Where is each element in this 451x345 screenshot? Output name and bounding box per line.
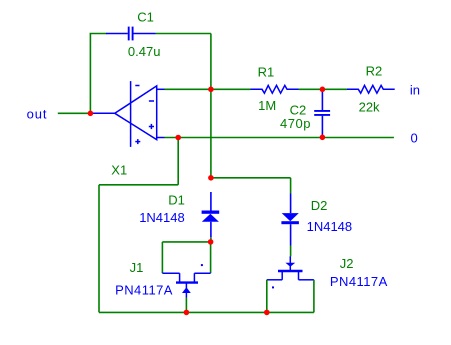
svg-text:1N4148: 1N4148 [139,210,185,225]
wire feedback left vertical [89,34,91,114]
wire feedback top-left segment [90,33,107,35]
wire J1 loop right [210,242,212,273]
wire out horizontal [58,112,91,114]
wire J1 loop top [162,241,210,243]
wire J2 left leg [266,280,268,313]
resistor R2 [347,85,395,93]
wire J2 right leg [313,280,315,313]
svg-text:out: out [27,107,48,122]
svg-text:22k: 22k [359,100,380,115]
junction node C2 top [320,87,326,93]
wire X1 loop horizontal [99,184,178,186]
svg-text:470p: 470p [280,116,311,131]
svg-text:0: 0 [411,130,418,145]
svg-text:PN4117A: PN4117A [330,274,388,289]
svg-text:1N4148: 1N4148 [307,219,353,234]
svg-text:in: in [410,83,420,98]
junction node out [88,111,94,117]
junction node C2 bottom [320,135,326,141]
wire left vertical to rail [98,185,100,313]
wire bottom rail [99,311,314,313]
junction node E rail [184,310,190,316]
junction node D [208,239,214,245]
wire R1 to R2 [299,88,348,90]
transistor J2 [267,256,314,288]
svg-text:J2: J2 [340,256,354,271]
svg-text:PN4117A: PN4117A [115,283,173,298]
op-amp X1 [90,81,164,147]
diode D2 [281,194,299,257]
wire J1 gate to rail [185,297,187,312]
svg-text:1M: 1M [258,98,276,113]
svg-text:X1: X1 [111,163,127,178]
svg-text:D1: D1 [168,193,185,208]
junction node B inv input [208,87,214,93]
junction node C [208,175,214,181]
svg-text:D2: D2 [311,198,328,213]
transistor J1 [162,264,210,297]
diode D1 [202,192,220,242]
svg-text:R2: R2 [366,64,383,79]
capacitor C1 [106,27,156,41]
junction node A noninv [175,135,181,141]
wire feedback top-right segment [156,33,211,35]
resistor R1 [251,85,299,93]
capacitor C2 [314,92,330,136]
svg-text:C1: C1 [137,9,154,24]
svg-text:0.47u: 0.47u [128,44,161,59]
wire feedback right vertical drop to node C [210,34,212,178]
wire inverting input [165,88,251,90]
svg-text:R1: R1 [258,64,275,79]
wire node C to D2 corner [211,177,291,179]
wire J1 loop left [161,242,163,273]
wire D2 corner drop [290,178,292,194]
wire noninverting input / 0 rail [165,137,394,139]
wire node A drop [177,138,179,185]
svg-text:J1: J1 [130,260,144,275]
junction node F rail [264,310,270,316]
